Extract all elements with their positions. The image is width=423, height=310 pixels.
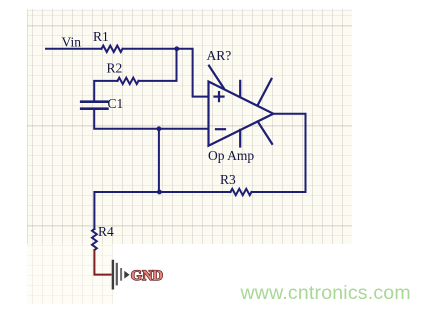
op-amp AR? bbox=[209, 66, 274, 147]
svg-text:C1: C1 bbox=[108, 96, 124, 111]
svg-text:Vin: Vin bbox=[62, 34, 82, 49]
op-amp diagonal pin bottom-right bbox=[258, 122, 272, 144]
svg-text:R4: R4 bbox=[98, 224, 114, 239]
junction B bbox=[157, 126, 162, 131]
junction A bbox=[174, 46, 179, 51]
wire Vin to R1 bbox=[46, 48, 102, 50]
svg-text:R3: R3 bbox=[220, 172, 236, 187]
wire R3 to op-amp output bbox=[252, 114, 306, 192]
svg-text:AR?: AR? bbox=[207, 48, 232, 63]
op-amp diagonal pin top-right bbox=[258, 79, 272, 105]
op-amp power pin bottom bbox=[239, 130, 241, 147]
capacitor C1 bbox=[81, 102, 107, 109]
wire junction B down to feedback line bbox=[158, 129, 160, 192]
svg-text:R1: R1 bbox=[93, 29, 109, 44]
wire junction B to op-amp inverting input bbox=[159, 128, 208, 130]
op-amp triangle body bbox=[209, 82, 274, 146]
resistor R1 bbox=[102, 46, 123, 52]
inverting input minus marker bbox=[216, 128, 225, 130]
op-amp diagonal pin top-left bbox=[209, 66, 224, 88]
wire R4 to ground (GND net) bbox=[94, 250, 111, 275]
resistor R4 bbox=[92, 229, 97, 250]
wire C1 to inverting input line bbox=[94, 110, 159, 129]
svg-text:GND: GND bbox=[131, 268, 163, 284]
wire R1 to corner bbox=[123, 49, 209, 97]
svg-text:Op Amp: Op Amp bbox=[208, 148, 254, 163]
svg-text:www.cntronics.com: www.cntronics.com bbox=[240, 282, 411, 304]
junction C bbox=[157, 190, 162, 195]
resistor R3 bbox=[231, 189, 252, 195]
wire R2 to C1 bbox=[94, 81, 117, 100]
wire feedback left segment bbox=[94, 192, 230, 229]
resistor R2 bbox=[118, 78, 139, 84]
wire junction A down to R2 bbox=[139, 49, 177, 81]
svg-text:R2: R2 bbox=[107, 61, 123, 76]
op-amp power pin top bbox=[239, 81, 241, 96]
non-inverting input plus marker bbox=[215, 95, 224, 97]
ground GND power bar symbol bbox=[113, 260, 130, 290]
